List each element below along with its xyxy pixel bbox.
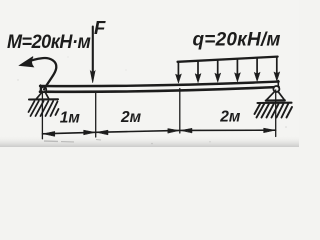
svg-text:2м: 2м [120,109,142,126]
svg-text:1м: 1м [60,109,81,126]
svg-text:F: F [94,17,106,38]
svg-text:M=20кН·м: M=20кН·м [7,30,91,52]
svg-text:2м: 2м [219,108,241,125]
svg-text:q=20кН/м: q=20кН/м [193,30,281,51]
